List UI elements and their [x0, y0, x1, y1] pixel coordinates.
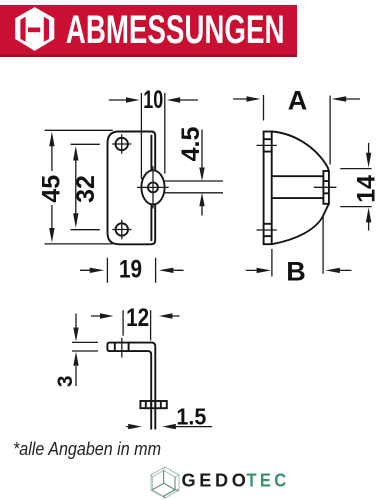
- dim 19 left arrowhead: [90, 268, 105, 273]
- dim 12 arrow shafts: [91, 315, 180, 317]
- dim 3 upper extension line: [72, 341, 98, 343]
- hexagon logo icon (white hexagon): [15, 7, 54, 51]
- svg-text:1.5: 1.5: [176, 404, 206, 430]
- side view dome upper curve: [272, 132, 329, 172]
- dim 4.5 upper line: [165, 180, 223, 182]
- dim 32 dimension line: [75, 159, 77, 214]
- dim A left arrowhead: [247, 96, 261, 101]
- side view bottom hole lines: [264, 224, 272, 236]
- dim 19 right arrowhead: [159, 268, 174, 273]
- dim 12 left arrowhead: [100, 313, 114, 318]
- svg-text:14: 14: [353, 175, 378, 203]
- red H right bracket inside hexagon: [44, 17, 49, 42]
- dim 32 top extension line: [71, 143, 100, 145]
- front view plate outline: [108, 132, 156, 245]
- dim 12 right extension line: [150, 310, 152, 340]
- dim 3 lower arrow shaft: [75, 366, 77, 386]
- dim 4.5 upper arrow shaft: [201, 130, 203, 169]
- front view top hole: [116, 138, 128, 150]
- dim A right arrowhead: [332, 96, 347, 101]
- L-profile outline: [107, 343, 155, 430]
- dim 3 upper arrowhead: [73, 328, 78, 342]
- dim A arrow shafts: [233, 98, 360, 100]
- side view top hole crosshair: [257, 144, 277, 146]
- dim 1.5 right arrowhead: [162, 424, 176, 429]
- dim 14 lower extension line: [340, 206, 371, 208]
- dim B left extension line: [271, 249, 273, 277]
- dim 10 right arrowhead: [167, 97, 181, 102]
- svg-text:12: 12: [126, 304, 149, 332]
- svg-text:32: 32: [72, 175, 100, 203]
- banner bottom shadow strip: [0, 55, 297, 57]
- red H center bar inside hexagon: [28, 28, 40, 33]
- side view top hole lines: [264, 139, 272, 151]
- dim 19 arrow shafts: [80, 269, 184, 271]
- side view hub crosshair: [314, 186, 337, 188]
- dim 32 bottom extension line: [71, 229, 100, 231]
- dim A left extension line: [263, 95, 265, 121]
- dim 14 upper extension line: [340, 168, 371, 170]
- bottom hole crosshair: [112, 220, 131, 239]
- dim 1.5 left arrowhead: [128, 424, 142, 429]
- red header banner: [0, 5, 297, 57]
- dim 19 right extension line: [155, 258, 157, 283]
- dim 14 upper arrow shaft: [368, 143, 370, 153]
- dim B right extension line: [322, 216, 324, 273]
- GEDOTEC logo icon (wireframe hexagon box): [151, 467, 179, 498]
- dim B left arrowhead: [257, 268, 272, 273]
- boss ellipse on front view: [141, 170, 164, 204]
- front view bottom hole: [116, 223, 128, 235]
- L-profile foot (nut): [140, 401, 166, 408]
- dim 19 left extension line: [106, 258, 108, 283]
- L-profile hole lines: [115, 343, 129, 352]
- dim 14 upper arrowhead: [366, 153, 371, 168]
- red H left bracket inside hexagon: [20, 17, 25, 42]
- dim 4.5 lower line: [165, 192, 223, 194]
- dim 1.5 arrow shafts: [126, 426, 212, 428]
- dim 3 lower arrowhead: [73, 352, 78, 366]
- side view hub division lines: [323, 181, 329, 193]
- dim 45 top arrowhead: [49, 132, 54, 147]
- dim B arrow shafts: [246, 269, 352, 271]
- svg-text:A: A: [288, 85, 308, 115]
- svg-text:4.5: 4.5: [177, 127, 205, 162]
- svg-text:19: 19: [119, 255, 142, 283]
- dim B right arrowhead: [325, 268, 340, 273]
- boss center hole: [148, 182, 158, 192]
- dim 12 right arrowhead: [159, 313, 173, 318]
- dim 10 right extension line: [164, 93, 166, 174]
- dim 4.5 lower arrowhead: [199, 193, 204, 207]
- dim 4.5 lower arrow shaft: [201, 206, 203, 216]
- side view bottom hole crosshair: [257, 229, 277, 231]
- boss crosshair: [137, 166, 169, 208]
- svg-text:*alle Angaben in mm: *alle Angaben in mm: [13, 438, 161, 459]
- L-profile foot division lines: [146, 401, 161, 408]
- dim 45 dimension line segments: [51, 145, 53, 229]
- side view stem lines: [272, 176, 324, 198]
- svg-text:ABMESSUNGEN: ABMESSUNGEN: [66, 8, 285, 52]
- dim 32 bottom arrowhead: [73, 213, 78, 228]
- dim 10 left extension line: [140, 93, 142, 179]
- side view hub: [323, 171, 329, 204]
- svg-text:10: 10: [143, 86, 163, 114]
- dim 10 left arrowhead: [126, 97, 140, 102]
- dim 14 lower arrowhead: [366, 207, 371, 222]
- dim A right extension line: [329, 96, 331, 165]
- side view dome lower curve: [272, 204, 329, 244]
- svg-text:B: B: [286, 257, 306, 287]
- top hole crosshair: [112, 134, 131, 153]
- front view fold inner line: [150, 135, 152, 241]
- dim 14 lower arrow shaft: [368, 222, 370, 231]
- svg-text:45: 45: [38, 175, 66, 203]
- dim 10 arrow shafts: [109, 99, 198, 101]
- svg-text:TEC: TEC: [247, 471, 290, 491]
- dim 12 left extension line: [122, 310, 124, 336]
- dim 45 bottom arrowhead: [49, 228, 54, 243]
- svg-text:3: 3: [54, 375, 77, 387]
- dim 32 top arrowhead: [73, 146, 78, 161]
- dim 3 upper arrow shaft: [75, 314, 77, 329]
- dim 45 bottom extension line: [45, 243, 113, 245]
- L-profile hole crosshair: [121, 338, 123, 358]
- dim 45 top extension line: [45, 129, 113, 131]
- dim 3 lower extension line: [72, 350, 98, 352]
- dim 4.5 upper arrowhead: [199, 168, 204, 182]
- side view back plate: [264, 132, 272, 245]
- svg-text:GEDO: GEDO: [182, 471, 250, 491]
